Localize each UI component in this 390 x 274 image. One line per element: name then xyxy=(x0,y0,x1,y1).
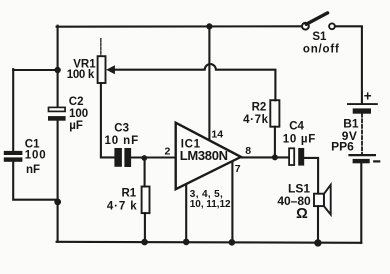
svg-text:µF: µF xyxy=(69,120,83,132)
wire pin 14 vertical xyxy=(208,26,210,139)
resistor R1 body xyxy=(142,187,150,214)
wire R2 bottom lead xyxy=(274,127,276,158)
svg-text:10, 11,12: 10, 11,12 xyxy=(190,199,231,210)
svg-text:4·7 k: 4·7 k xyxy=(107,201,138,213)
battery B1 dashed middle xyxy=(361,114,363,154)
wire VR1 bottom lead to C3 xyxy=(101,83,115,157)
wire C4 to LS1 xyxy=(304,158,318,194)
wire switch to battery top xyxy=(335,26,362,103)
svg-text:on/off: on/off xyxy=(303,44,340,56)
battery B1 plate thick bottom xyxy=(353,159,370,163)
node rail dot R1 xyxy=(141,239,148,246)
wire top-left vertical (V+ to C2) xyxy=(57,26,59,108)
svg-text:Ω: Ω xyxy=(296,206,308,222)
svg-text:R2: R2 xyxy=(252,102,267,114)
switch S1 lever xyxy=(306,13,327,24)
svg-text:100 k: 100 k xyxy=(67,69,95,81)
node junction dot top-left xyxy=(54,67,60,73)
op-amp IC1 triangle xyxy=(176,123,241,190)
node junction dot output/R2 xyxy=(272,154,278,160)
potentiometer VR1 body xyxy=(98,56,106,83)
svg-text:PP6: PP6 xyxy=(331,139,354,153)
potentiometer VR1 faint top lead xyxy=(100,39,102,56)
speaker LS1 cone xyxy=(324,185,331,215)
svg-text:100: 100 xyxy=(69,108,88,120)
capacitor C3 plates xyxy=(114,148,122,167)
wire R1 bottom lead xyxy=(144,213,146,242)
node rail dot pins345 xyxy=(183,239,190,246)
wire VR1 wiper to R2 with hop xyxy=(114,64,276,100)
wire pins 3,4,5,10,11,12 lead xyxy=(185,185,187,242)
speaker LS1 box xyxy=(314,194,324,206)
svg-text:2: 2 xyxy=(165,146,171,158)
wire C1 top branch xyxy=(13,69,57,71)
svg-text:C3: C3 xyxy=(114,122,129,134)
wire pin 8 output xyxy=(241,156,290,158)
wire top rail left segment xyxy=(57,25,302,28)
battery B1 plate long top xyxy=(348,103,377,105)
capacitor C2 plates xyxy=(49,107,66,111)
svg-text:LM380N: LM380N xyxy=(180,148,228,163)
node rail dot LS1 xyxy=(314,239,321,246)
potentiometer VR1 wiper arrowhead xyxy=(106,65,115,74)
svg-text:C2: C2 xyxy=(69,96,84,108)
svg-text:nF: nF xyxy=(26,164,40,176)
battery minus sign xyxy=(374,160,379,162)
capacitor C1 plates xyxy=(4,151,23,155)
wire pin 2 input xyxy=(131,156,174,158)
svg-text:R1: R1 xyxy=(121,188,136,200)
capacitor C4 plates xyxy=(289,148,294,165)
wire pin 7 lead xyxy=(231,162,233,243)
svg-text:14: 14 xyxy=(211,129,223,141)
node junction dot top rail pin14 xyxy=(206,23,212,29)
switch S1 contacts xyxy=(302,23,309,30)
svg-text:7: 7 xyxy=(235,163,241,175)
wire R1 top lead xyxy=(144,158,146,187)
wire C1 left vertical xyxy=(12,69,14,151)
wire battery negative to ground rail xyxy=(360,163,362,243)
svg-text:8: 8 xyxy=(245,145,251,157)
battery B1 plate thick top xyxy=(353,108,371,113)
wire C1 bottom lead xyxy=(13,162,58,200)
svg-text:S1: S1 xyxy=(312,31,327,43)
wire bottom ground rail xyxy=(57,242,362,243)
svg-text:10 µF: 10 µF xyxy=(283,134,316,146)
svg-text:100: 100 xyxy=(25,149,47,161)
resistor R2 body xyxy=(270,100,279,127)
battery B1 plate long bottom xyxy=(350,154,375,156)
svg-text:C4: C4 xyxy=(289,121,304,133)
node junction dot C1/C2 xyxy=(54,199,61,206)
svg-text:4·7k: 4·7k xyxy=(243,114,268,126)
svg-text:10 nF: 10 nF xyxy=(105,135,140,147)
node junction dot pin2/R1 xyxy=(141,155,147,161)
wire LS1 bottom lead xyxy=(317,206,319,243)
node rail dot pin7 xyxy=(229,239,236,246)
svg-text:+: + xyxy=(364,89,372,104)
wire C2 bottom to ground rail xyxy=(57,121,59,242)
